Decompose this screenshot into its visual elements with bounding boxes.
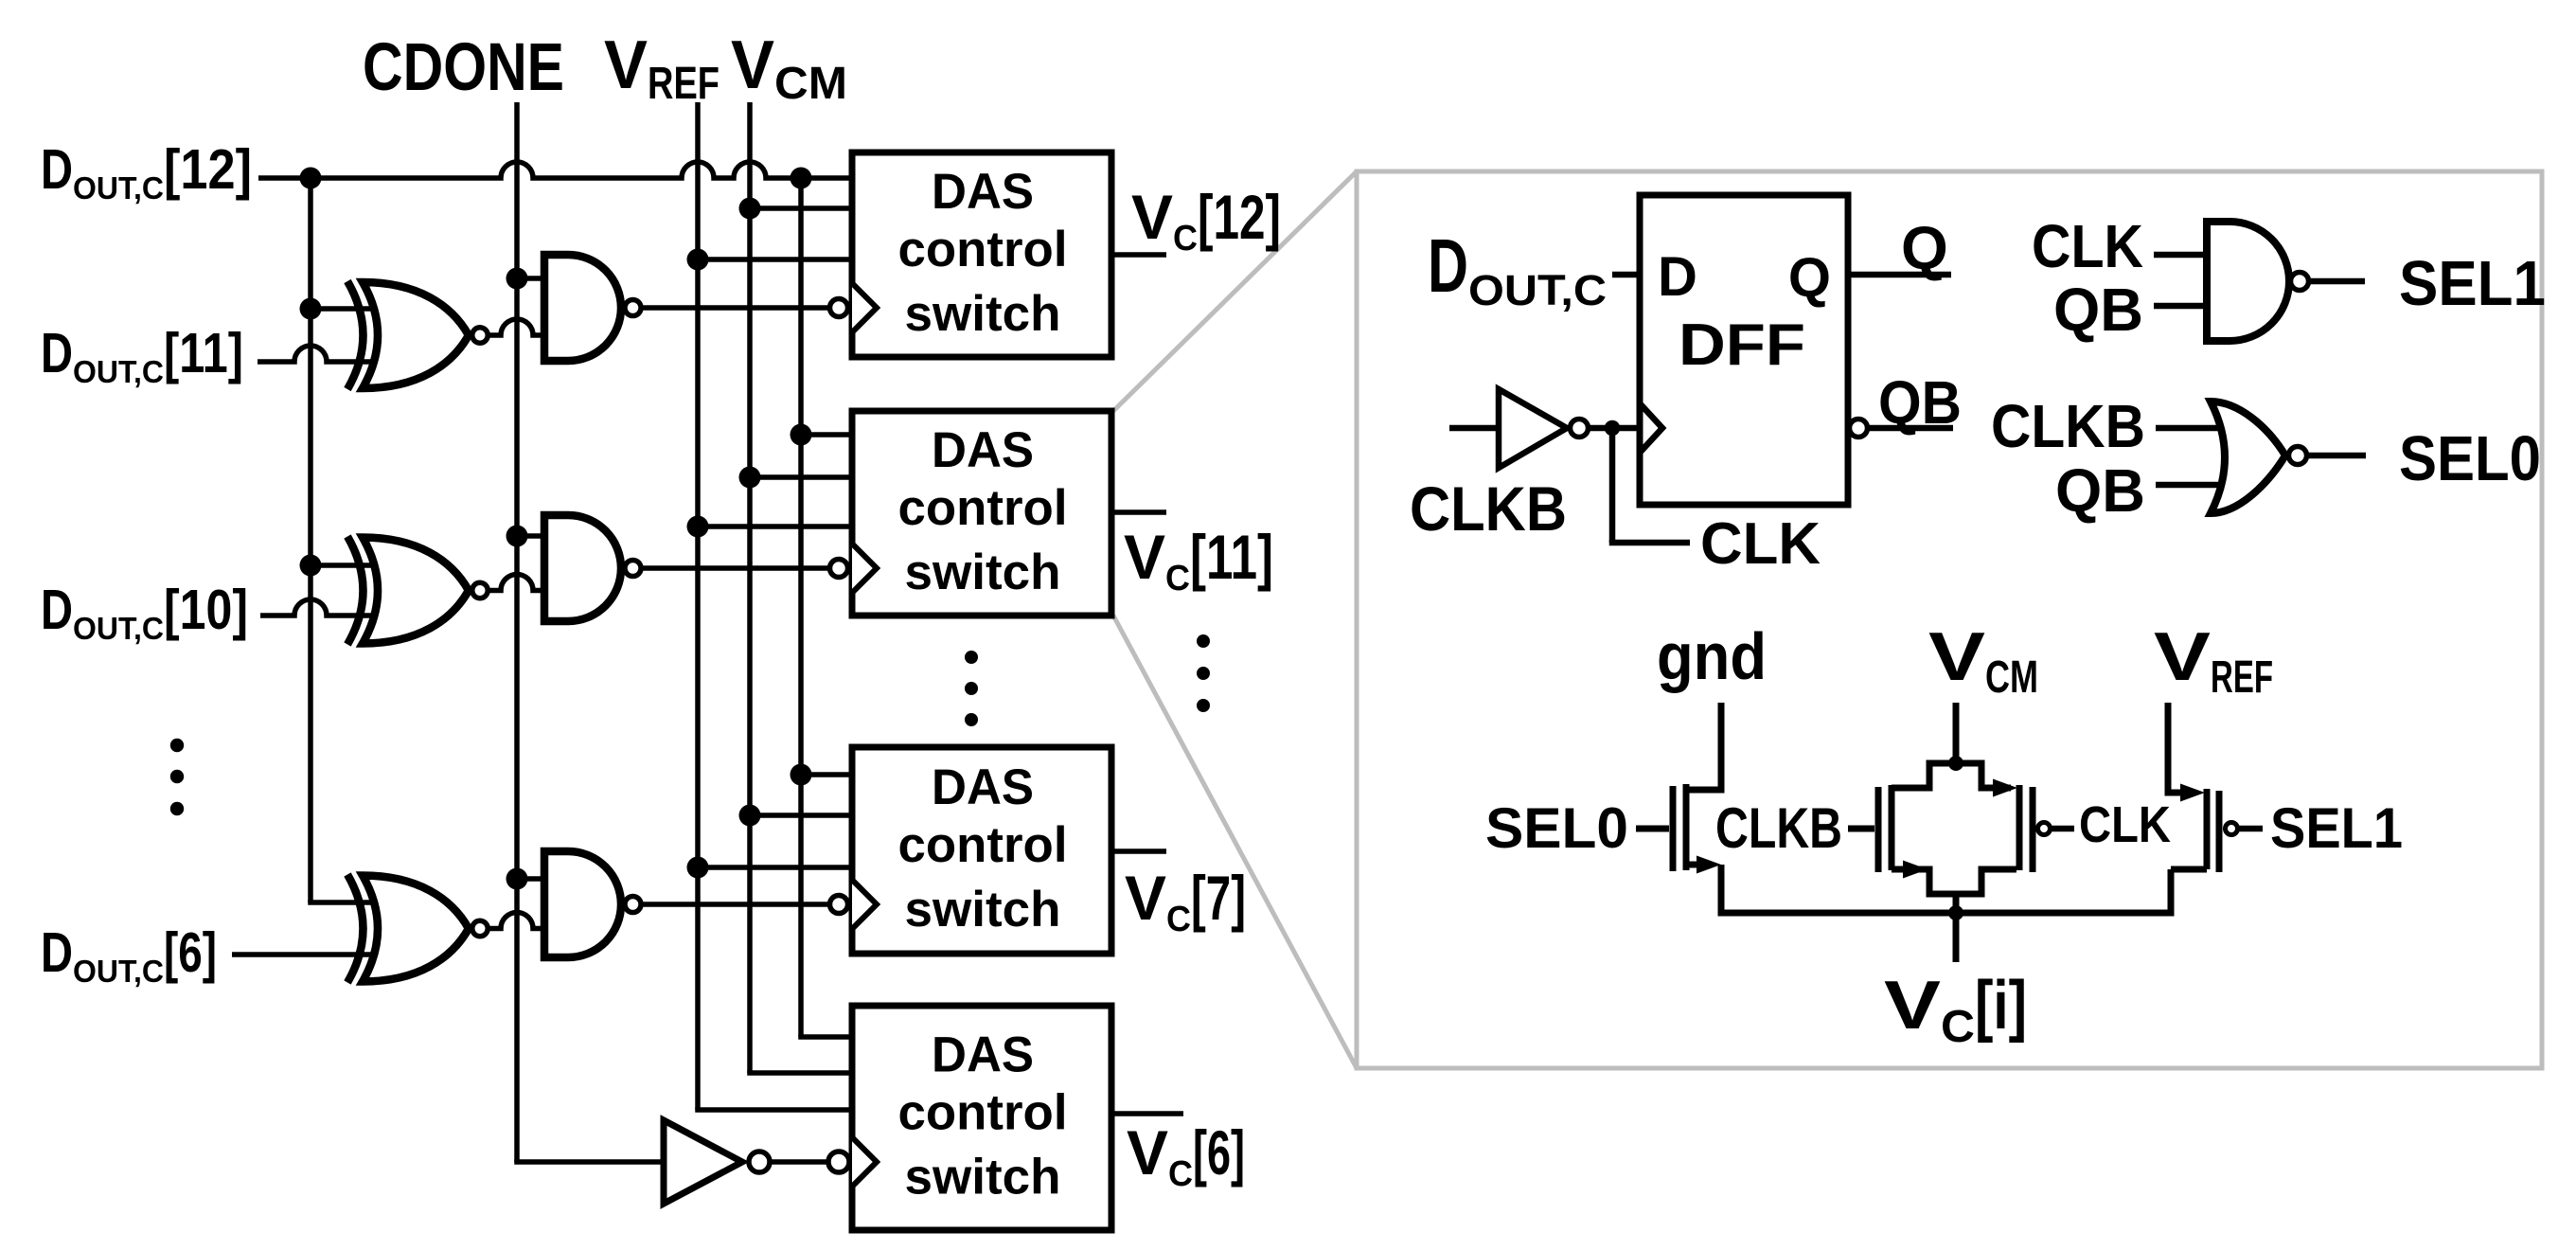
svg-text:CLKB: CLKB xyxy=(1991,392,2145,460)
svg-text:switch: switch xyxy=(905,882,1061,937)
svg-text:control: control xyxy=(898,222,1068,277)
svg-text:SEL0: SEL0 xyxy=(2399,423,2541,494)
svg-text:control: control xyxy=(898,1085,1068,1141)
svg-text:Q: Q xyxy=(1901,214,1948,282)
svg-text:DAS: DAS xyxy=(932,1027,1034,1083)
svg-text:SEL1: SEL1 xyxy=(2399,248,2546,319)
svg-text:switch: switch xyxy=(905,1150,1061,1205)
svg-text:Q: Q xyxy=(1788,247,1831,309)
svg-text:CLK: CLK xyxy=(2079,796,2171,853)
svg-text:VC[11]: VC[11] xyxy=(1124,522,1273,598)
svg-text:switch: switch xyxy=(905,286,1061,342)
svg-text:QB: QB xyxy=(2053,276,2143,344)
svg-text:CLK: CLK xyxy=(2032,212,2143,280)
svg-text:CLKB: CLKB xyxy=(1715,796,1842,860)
svg-text:SEL1: SEL1 xyxy=(2270,796,2403,860)
svg-text:control: control xyxy=(898,480,1068,536)
svg-text:DAS: DAS xyxy=(932,164,1034,220)
svg-text:SEL0: SEL0 xyxy=(1485,796,1628,860)
svg-text:switch: switch xyxy=(905,545,1061,600)
svg-text:VC[12]: VC[12] xyxy=(1131,182,1281,259)
svg-text:QB: QB xyxy=(1878,368,1962,437)
svg-text:D: D xyxy=(1658,246,1697,308)
svg-text:CDONE: CDONE xyxy=(363,30,564,105)
svg-text:CLKB: CLKB xyxy=(1410,473,1567,544)
svg-text:DAS: DAS xyxy=(932,759,1034,815)
svg-text:CLK: CLK xyxy=(1700,511,1821,577)
svg-text:DAS: DAS xyxy=(932,422,1034,478)
svg-text:QB: QB xyxy=(2055,456,2145,525)
svg-text:DFF: DFF xyxy=(1679,312,1805,378)
svg-text:gnd: gnd xyxy=(1657,619,1767,693)
svg-text:control: control xyxy=(898,817,1068,873)
